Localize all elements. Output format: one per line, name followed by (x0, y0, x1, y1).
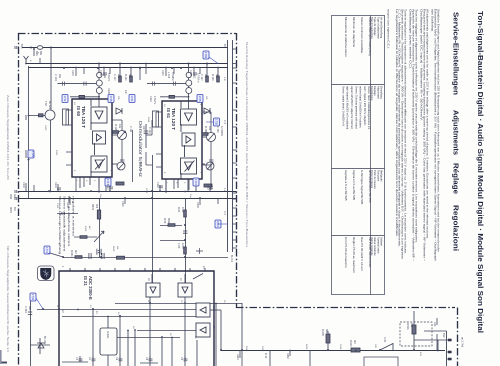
svg-text:ADC 2300-E: ADC 2300-E (88, 276, 93, 300)
svg-text:1741: 1741 (45, 247, 49, 253)
svg-text:Stereo: canale destro 1 kHz/30: Stereo: canale destro 1 kHz/300 mV. (341, 86, 344, 127)
svg-text:S-förmiges Signal BE 595: S-förmiges Signal BE 595 (360, 170, 364, 205)
svg-text:rechter Kanal 1 kHz/300mV modu: rechter Kanal 1 kHz/300mV moduliert. (359, 86, 362, 129)
svg-text:R 63: R 63 (163, 218, 166, 224)
svg-text:C 107: C 107 (113, 74, 116, 81)
svg-text:T 60: T 60 (44, 101, 47, 107)
svg-text:R103: R103 (66, 202, 69, 208)
svg-text:1746: 1746 (31, 294, 35, 300)
svg-text:C102: C102 (22, 182, 25, 188)
svg-text:R 610: R 610 (349, 340, 352, 347)
svg-text:TBA 120 T: TBA 120 T (81, 106, 86, 128)
svg-text:R606: R606 (305, 344, 307, 350)
svg-text:an 2. Teil: an 2. Teil (461, 337, 464, 347)
svg-text:B12: B12 (442, 333, 445, 338)
svg-text:Aus Chassis-Signalplatte 29504: Aus Chassis-Signalplatte 29504-101.01 To… (6, 95, 10, 181)
svg-text:Adjustments: Adjustments (452, 110, 461, 155)
svg-text:C 131: C 131 (216, 126, 219, 133)
svg-text:C126: C126 (189, 70, 192, 76)
svg-text:1735: 1735 (215, 119, 219, 125)
svg-text:L101: L101 (103, 73, 106, 79)
svg-text:regolare a minimo: regolare a minimo (72, 196, 76, 237)
svg-text:L6W: L6W (9, 194, 12, 200)
svg-text:Schalt.: Schalt. (106, 331, 109, 339)
svg-text:Stereo minimum einstellbar: Stereo minimum einstellbar (360, 17, 364, 53)
svg-text:IS 60: IS 60 (76, 106, 81, 117)
svg-text:560k: 560k (167, 218, 170, 224)
svg-text:Nachrüstung Tagesschau-Umrüsts: Nachrüstung Tagesschau-Umrüstsatz 29504-… (245, 42, 249, 248)
svg-text:L 104: L 104 (167, 72, 170, 79)
svg-text:Con PS 60 al massimo: Con PS 60 al massimo (344, 237, 348, 268)
svg-text:R101: R101 (54, 182, 57, 188)
svg-text:5,74MHz: 5,74MHz (220, 126, 223, 137)
svg-text:C113: C113 (149, 96, 152, 102)
svg-text:100k: 100k (181, 207, 184, 213)
svg-text:903: 903 (410, 323, 413, 328)
svg-text:scopio (con ingresso C.C.).: scopio (con ingresso C.C.). (387, 9, 391, 49)
svg-text:R 110: R 110 (124, 74, 127, 81)
svg-text:R124: R124 (161, 70, 164, 76)
svg-text:R135: R135 (196, 202, 199, 208)
svg-text:R642: R642 (245, 346, 247, 352)
svg-text:NF-Chassis-Signalplatte Gesamt: NF-Chassis-Signalplatte Gesamtübersicht … (6, 246, 10, 353)
svg-text:MON: MON (9, 207, 12, 213)
svg-text:signal 1 kHz/30mV; adjust for: signal 1 kHz/30mV; adjust for minimum (350, 86, 353, 129)
svg-text:segnale a S su BE 595: segnale a S su BE 595 (344, 170, 348, 201)
svg-text:IS 61: IS 61 (166, 108, 171, 119)
svg-text:C106: C106 (99, 70, 102, 76)
svg-text:R 61: R 61 (177, 207, 180, 213)
svg-text:C137: C137 (206, 184, 209, 190)
svg-text:Stereo: Nach. Farbbalkengenera: Stereo: Nach. Farbbalkengenerator mit (367, 86, 370, 130)
svg-text:R 116: R 116 (114, 124, 117, 131)
svg-text:Misurazione di diafonia stereo: Misurazione di diafonia stereo (344, 17, 348, 57)
svg-text:5,5MHz: 5,5MHz (107, 73, 110, 82)
svg-text:B16: B16 (20, 44, 23, 49)
svg-text:1725: 1725 (31, 151, 35, 157)
svg-text:R115: R115 (121, 201, 124, 207)
svg-text:1711: 1711 (63, 96, 67, 102)
svg-text:C083: C083 (145, 188, 147, 194)
svg-text:R105: R105 (55, 150, 57, 156)
svg-text:R114: R114 (147, 117, 149, 123)
svg-text:R108: R108 (107, 88, 110, 94)
svg-text:100n: 100n (181, 243, 184, 249)
svg-text:R 136: R 136 (204, 126, 207, 133)
svg-text:Erforderliche Meß- und Prüfger: Erforderliche Meß- und Prüfgeräte: Trenn… (434, 9, 438, 262)
svg-text:norm. Signal 1 kHz 30mV. Abgle: norm. Signal 1 kHz 30mV. Abgleich: (363, 86, 366, 126)
svg-text:R 641: R 641 (70, 250, 73, 257)
svg-text:1715: 1715 (109, 96, 113, 102)
svg-text:1812: 1812 (216, 221, 220, 227)
svg-text:Le regolazioni indicate in tab: Le regolazioni indicate in tabella si ri… (395, 9, 399, 237)
svg-text:C604: C604 (339, 344, 341, 350)
svg-text:C 2: C 2 (223, 211, 226, 216)
svg-text:B 6: B 6 (223, 44, 226, 48)
svg-text:Stereo-Übersprechdämpfung: Stereo-Übersprechdämpfung (368, 17, 372, 56)
svg-text:TBA 120 T: TBA 120 T (171, 108, 176, 130)
svg-text:22n: 22n (142, 126, 145, 131)
svg-text:R508: R508 (112, 246, 114, 252)
svg-text:S 30: S 30 (383, 337, 386, 343)
svg-text:R652: R652 (286, 353, 289, 359)
svg-text:R104: R104 (71, 70, 74, 76)
svg-text:C103: C103 (44, 125, 46, 131)
svg-text:Regolazioni: Regolazioni (452, 205, 461, 251)
svg-text:1721: 1721 (130, 96, 134, 102)
svg-text:Das PS 60 stellt V LK ein: Das PS 60 stellt V LK ein (360, 237, 364, 271)
svg-text:C 114: C 114 (148, 127, 151, 134)
svg-text:oder Oszilloskop.: oder Oszilloskop. (431, 9, 435, 32)
svg-text:R640: R640 (236, 354, 239, 360)
svg-text:Oscilloscope (avec entrée CC).: Oscilloscope (avec entrée CC). (409, 9, 413, 69)
svg-text:B 12: B 12 (264, 353, 267, 359)
svg-text:Ton-Signal-Baustein Digital ·: Ton-Signal-Baustein Digital · Audio Sign… (476, 11, 483, 333)
svg-text:1,5MHz: 1,5MHz (153, 96, 156, 105)
svg-text:C 104: C 104 (54, 74, 57, 81)
svg-text:4k7: 4k7 (74, 250, 77, 255)
svg-text:3k9: 3k9 (325, 329, 328, 334)
svg-text:R106: R106 (84, 226, 86, 232)
svg-text:Service-Einstellungen: Service-Einstellungen (452, 12, 461, 95)
svg-text:BF 324: BF 324 (48, 101, 51, 110)
svg-text:C 63: C 63 (177, 243, 180, 249)
svg-text:C 111: C 111 (129, 126, 132, 133)
svg-text:C 344: C 344 (24, 306, 27, 313)
svg-text:C117: C117 (106, 184, 109, 190)
svg-text:C115: C115 (139, 160, 141, 166)
svg-text:Stereo crosstalk adjustment: Stereo crosstalk adjustment (63, 196, 67, 251)
svg-text:5,74MHz: 5,74MHz (197, 73, 200, 83)
svg-text:Minimum de diaphonie: Minimum de diaphonie (352, 17, 356, 48)
svg-text:IS 21: IS 21 (83, 276, 88, 286)
svg-text:1703: 1703 (204, 52, 208, 58)
svg-text:Regler PS 60 au maximum: Regler PS 60 au maximum (352, 237, 356, 273)
svg-text:1725: 1725 (198, 96, 202, 102)
svg-text:R 601: R 601 (406, 323, 409, 330)
svg-text:4k7: 4k7 (353, 340, 356, 345)
svg-text:503: 503 (95, 204, 98, 209)
svg-text:R509: R509 (91, 204, 94, 211)
svg-text:1727: 1727 (194, 179, 198, 185)
svg-text:right channel 1 kHz/300 mV mod: right channel 1 kHz/300 mV modulated. (346, 86, 349, 130)
svg-text:22n: 22n (58, 74, 61, 79)
svg-text:C650: C650 (261, 346, 263, 352)
svg-text:C 4: C 4 (223, 120, 226, 125)
svg-text:C105: C105 (56, 203, 58, 209)
svg-text:BC 237: BC 237 (43, 336, 46, 345)
svg-text:an Funkenstörer BE 555: an Funkenstörer BE 555 (368, 170, 372, 203)
svg-text:Stereo: Color bar generator wi: Stereo: Color bar generator with stand. (354, 86, 357, 129)
svg-text:Signal en S au BE 595: Signal en S au BE 595 (352, 170, 356, 201)
svg-text:Réglage: Réglage (452, 163, 461, 194)
svg-text:5,5MHz: 5,5MHz (171, 72, 174, 81)
svg-text:6M: 6M (13, 207, 16, 210)
svg-text:BU 14: BU 14 (230, 255, 233, 263)
svg-text:C118: C118 (156, 182, 159, 188)
svg-text:AM: AM (13, 194, 16, 198)
svg-text:mit PS 60 Stereo einst.: mit PS 60 Stereo einst. (368, 237, 372, 268)
svg-text:R 608: R 608 (321, 329, 324, 336)
svg-text:68n: 68n (28, 306, 31, 311)
svg-text:Oscilloscope (with DC input) –: Oscilloscope (with DC input) – Multimete… (420, 9, 424, 121)
svg-text:10n: 10n (124, 90, 127, 95)
svg-text:R 130: R 130 (211, 74, 214, 81)
svg-text:K30: K30 (433, 322, 436, 327)
